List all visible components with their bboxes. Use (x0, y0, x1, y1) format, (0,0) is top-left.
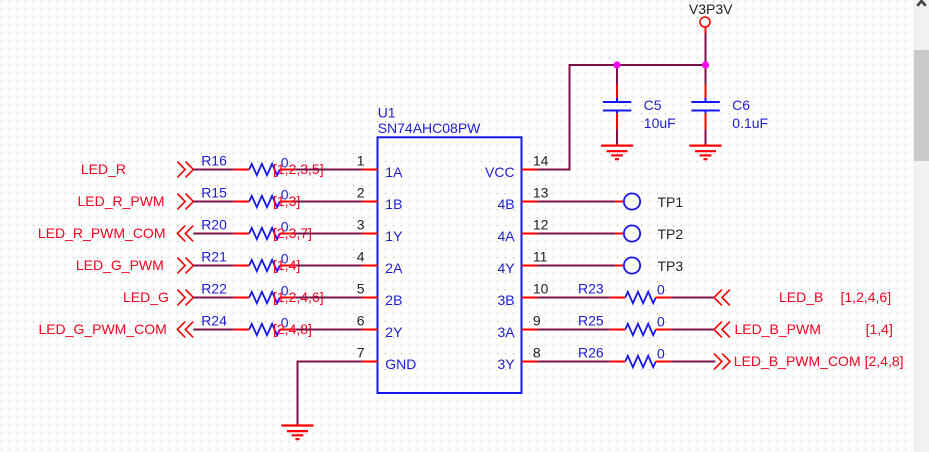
port LED_R_PWM_COM chevron (177, 226, 193, 242)
wire R25 to port LED_B_PWM (671, 329, 714, 331)
wire R15 to pin 2 (295, 201, 362, 203)
wire R23 to port LED_B (671, 297, 714, 299)
wire R24 to pin 6 (295, 329, 362, 331)
resistor R16 (234, 164, 296, 175)
op IC U1 body (378, 137, 522, 393)
wire V3P3V to bus (705, 33, 707, 65)
pin 7 stub (362, 361, 378, 363)
test point TP1 (616, 193, 640, 209)
wire C6 to ground (705, 129, 707, 145)
port LED_G_PWM_COM chevron (177, 322, 193, 338)
pin 10 stub (522, 297, 538, 299)
pin 12 stub (522, 233, 538, 235)
scrollbar up arrow (917, 1, 925, 6)
capacitor C6 (691, 84, 719, 129)
resistor R25 (610, 324, 671, 335)
pin 5 stub (362, 297, 378, 299)
pin 11 stub (522, 265, 538, 267)
pin 6 stub (362, 329, 378, 331)
wire pin 9 to R25 (538, 329, 610, 331)
ground symbol at GND pin (282, 426, 314, 440)
pin 4 stub (362, 265, 378, 267)
test point TP2 (616, 225, 640, 241)
wire GND pin to ground (298, 362, 362, 426)
pin 8 stub (522, 361, 538, 363)
wire LED_R to R16 (193, 169, 233, 171)
port LED_B_PWM_COM chevron (714, 354, 730, 370)
port LED_G_PWM chevron (177, 258, 193, 274)
wire LED_G_PWM_COM to R24 (193, 329, 233, 331)
junction at C6 / V3P3V (702, 61, 709, 68)
wire R16 to pin 1 (295, 169, 362, 171)
wire LED_G_PWM to R21 (193, 265, 233, 267)
test point TP3 (616, 257, 640, 273)
pin 13 stub (522, 201, 538, 203)
pin 3 stub (362, 233, 378, 235)
wire R26 to port LED_B_PWM_COM (671, 361, 715, 363)
power symbol V3P3V circle (700, 17, 710, 33)
resistor R24 (234, 324, 296, 335)
resistor R23 (610, 292, 671, 303)
wire pin 13 to TP1 (538, 201, 616, 203)
junction at C5 (613, 61, 620, 68)
resistor R15 (234, 196, 296, 207)
wire pin 12 to TP2 (538, 233, 616, 235)
wire C5 to ground (616, 129, 618, 145)
wire R22 to pin 5 (295, 297, 362, 299)
wire R21 to pin 4 (295, 265, 362, 267)
wire R20 to pin 3 (295, 233, 362, 235)
wire LED_R_PWM_COM to R20 (193, 233, 233, 235)
port LED_R_PWM chevron (177, 194, 193, 210)
wire VCC bus horizontal (570, 64, 706, 66)
port LED_B chevron (714, 290, 730, 306)
pin 2 stub (362, 201, 378, 203)
resistor R21 (234, 260, 296, 271)
wire bus to C5 (616, 65, 618, 85)
wire pin 8 to R26 (538, 361, 610, 363)
pin 1 stub (362, 169, 378, 171)
resistor R26 (610, 356, 671, 367)
wire bus to C6 (705, 65, 707, 85)
port LED_B_PWM chevron (714, 322, 730, 338)
ground below C6 (690, 146, 722, 160)
wire pin 11 to TP3 (538, 265, 616, 267)
wire to VCC pin 14 (538, 169, 571, 171)
wire VCC bus vertical (569, 64, 571, 170)
resistor R20 (234, 228, 296, 239)
capacitor C5 (603, 84, 631, 129)
wire LED_R_PWM to R15 (193, 201, 233, 203)
resistor R22 (234, 292, 296, 303)
pin 14 stub (522, 169, 538, 171)
pin 9 stub (522, 329, 538, 331)
wire LED_G to R22 (193, 297, 233, 299)
port LED_G chevron (177, 290, 193, 306)
wire pin 10 to R23 (538, 297, 610, 299)
ground below C5 (601, 146, 633, 160)
port LED_R chevron (177, 162, 193, 178)
